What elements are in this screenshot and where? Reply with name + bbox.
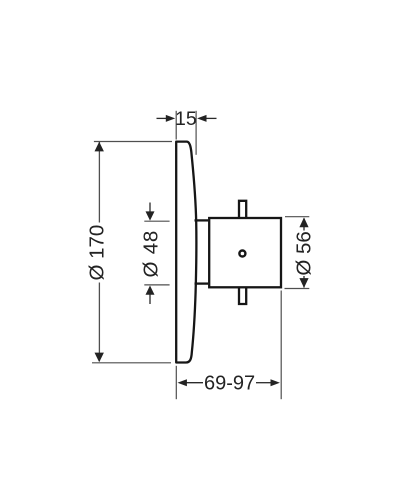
dim 69-97: right extension line (280, 291, 282, 400)
center screw ring (239, 251, 245, 257)
dim 15: right arrow (206, 117, 217, 119)
dim D170: dimension line upper segment (98, 142, 100, 223)
sleeve top line (195, 219, 209, 221)
dim D56: bottom extension line (285, 288, 310, 290)
svg-text:Ø 48: Ø 48 (139, 230, 162, 278)
dim D56: top extension line (285, 216, 309, 218)
escutcheon plate profile (176, 142, 196, 363)
dim D170: bottom extension line (92, 362, 171, 364)
dim 15: left arrow (157, 117, 168, 119)
dim 69-97: left arrow (187, 382, 204, 384)
dim D48: bottom arrow (149, 294, 151, 305)
valve body square (209, 218, 281, 287)
svg-text:15: 15 (175, 108, 197, 130)
dim D170: top extension line (94, 141, 172, 143)
dim D56: dimension line upper segment (303, 219, 305, 231)
dim 69-97: right arrow (256, 382, 271, 384)
top tab (239, 201, 246, 218)
dim D170: top arrow (95, 142, 104, 152)
dim D170: dimension line lower segment (98, 283, 100, 362)
dim D48: bottom tick (144, 284, 169, 286)
dim D170: bottom arrow (95, 353, 104, 363)
dim D56: bottom arrow (299, 278, 308, 288)
dim D48: top tick (144, 220, 169, 222)
dim 69-97: left extension line (175, 366, 177, 399)
dim 15: right extension line (195, 111, 197, 155)
bottom tab (239, 287, 246, 304)
dim D56: dimension line lower segment (303, 276, 305, 288)
svg-text:Ø 56: Ø 56 (293, 231, 316, 275)
dim D48: top arrow (149, 203, 151, 213)
svg-text:Ø 170: Ø 170 (86, 225, 109, 281)
sleeve bottom line (195, 282, 209, 284)
svg-text:69-97: 69-97 (204, 372, 255, 394)
dim 15: left extension line (175, 111, 177, 140)
dim D56: top arrow (299, 217, 308, 227)
